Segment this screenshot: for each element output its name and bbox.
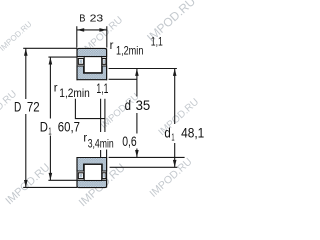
dimension d1 line	[174, 69, 176, 168]
dimension D1 line	[49, 57, 51, 180]
svg-text:D: D	[40, 120, 48, 135]
svg-text:r: r	[110, 40, 114, 52]
roller bottom section	[84, 164, 102, 180]
arrow d down	[135, 150, 139, 157]
svg-text:72: 72	[27, 99, 40, 114]
dimension B line	[77, 29, 107, 31]
dimension D1 extension lines	[48, 57, 77, 180]
svg-text:d: d	[164, 125, 170, 140]
inner ring top section	[77, 66, 107, 80]
svg-text:1: 1	[48, 126, 51, 138]
chamfer extension line 2	[104, 99, 106, 132]
svg-text:1,1: 1,1	[151, 35, 163, 49]
svg-text:0,6: 0,6	[122, 134, 137, 149]
bearing side edges top section	[77, 48, 107, 80]
cage right top section	[102, 59, 106, 65]
svg-text:1,1: 1,1	[96, 81, 108, 96]
inner ring bottom section	[77, 158, 107, 172]
svg-text:1: 1	[171, 131, 174, 143]
svg-text:48,1: 48,1	[181, 126, 204, 141]
svg-text:r: r	[54, 83, 58, 95]
arrow D1 up	[49, 57, 53, 64]
outer ring top section	[77, 48, 107, 56]
arrow D1 down	[49, 173, 53, 180]
outer ring bottom section	[77, 180, 107, 187]
arrow d1 up	[173, 69, 177, 76]
dimension D line	[25, 48, 27, 187]
cage right bottom section	[102, 173, 106, 179]
svg-text:d: d	[125, 98, 131, 113]
dimension D extension lines	[23, 48, 77, 187]
svg-text:D: D	[14, 99, 21, 114]
svg-text:B: B	[79, 14, 86, 25]
svg-text:35: 35	[136, 98, 151, 113]
dimension B extension lines	[77, 26, 107, 47]
svg-text:3,4min: 3,4min	[88, 137, 114, 151]
extension line bore bottom right	[109, 156, 185, 158]
roller top section	[84, 57, 102, 73]
bearing side edges bottom section	[77, 157, 107, 188]
arrow d up	[135, 69, 139, 76]
watermark IMPOD.RU tiles	[0, 0, 201, 209]
chamfer extension line 1	[100, 99, 102, 158]
extension line raceway bottom right	[110, 166, 178, 168]
cage left bottom section	[78, 173, 83, 179]
arrow d1 down	[173, 160, 177, 167]
svg-text:1,2min: 1,2min	[59, 86, 90, 100]
svg-text:60,7: 60,7	[58, 120, 80, 135]
svg-text:1,2min: 1,2min	[116, 44, 143, 58]
arrow B left	[77, 28, 84, 32]
arrow D down	[24, 180, 28, 187]
leader r 1,2min left	[75, 99, 105, 119]
arrow B right	[99, 28, 106, 32]
arrow D up	[24, 48, 28, 55]
bearing edge extension bottom right	[106, 150, 108, 158]
extension line bore top right	[109, 78, 137, 80]
extension line flange top right	[109, 68, 177, 70]
dimension d line	[136, 69, 138, 158]
svg-text:23: 23	[90, 14, 104, 25]
cage left top section	[78, 59, 83, 65]
